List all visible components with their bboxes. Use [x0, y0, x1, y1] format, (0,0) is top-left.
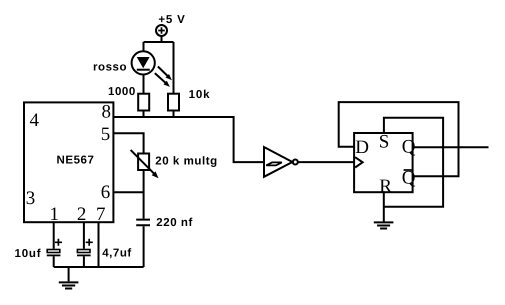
svg-text:rosso: rosso — [93, 62, 127, 74]
svg-text:6: 6 — [101, 182, 111, 203]
svg-text:S: S — [379, 132, 390, 153]
svg-text:NE567: NE567 — [57, 155, 95, 167]
svg-text:Q: Q — [402, 168, 416, 189]
svg-text:20 k multg: 20 k multg — [155, 156, 217, 168]
svg-text:8: 8 — [102, 102, 112, 123]
svg-text:2: 2 — [77, 204, 87, 225]
svg-text:Q: Q — [402, 137, 416, 158]
svg-text:4,7uf: 4,7uf — [102, 247, 132, 259]
svg-text:R: R — [379, 176, 392, 197]
svg-text:10k: 10k — [189, 89, 211, 101]
svg-text:+5 V: +5 V — [158, 14, 185, 26]
svg-text:D: D — [355, 137, 369, 158]
svg-text:220 nf: 220 nf — [156, 217, 193, 229]
svg-text:7: 7 — [96, 204, 106, 225]
svg-text:5: 5 — [101, 124, 111, 145]
svg-text:4: 4 — [30, 110, 40, 131]
svg-text:1000: 1000 — [108, 86, 136, 98]
svg-text:10uf: 10uf — [15, 248, 42, 260]
svg-text:1: 1 — [50, 204, 60, 225]
svg-text:3: 3 — [26, 188, 36, 209]
